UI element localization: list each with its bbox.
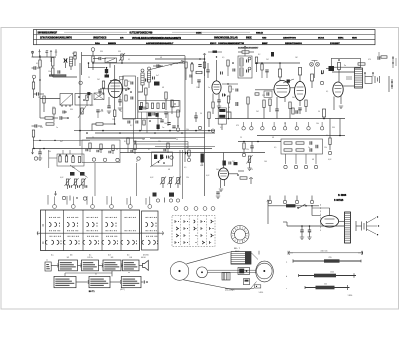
antenna terminal 3 — [46, 51, 48, 58]
switch cell label 3 — [89, 255, 92, 257]
wire extra v2 — [222, 83, 238, 84]
switch section number 1 — [53, 205, 57, 209]
node lb2 — [33, 148, 45, 150]
resistor R66 — [78, 106, 86, 118]
svg-text:0,02: 0,02 — [328, 159, 331, 161]
svg-text:68: 68 — [162, 87, 164, 89]
header r3 text f — [262, 43, 268, 45]
svg-text:8,2: 8,2 — [124, 141, 126, 143]
dashed table divider 1 — [180, 216, 182, 247]
right terminals — [381, 56, 396, 68]
svg-text:xx: xx — [46, 260, 48, 262]
wire v6 more — [237, 171, 244, 176]
dial bottom wire — [225, 288, 254, 290]
svg-text:KNCC: KNCC — [210, 43, 217, 45]
svg-text:1IR: 1IR — [120, 38, 124, 40]
block row1 label 4 — [129, 257, 132, 259]
dashed contacts col 3 — [194, 220, 197, 243]
wire mid bus 1 — [74, 130, 215, 132]
svg-text:470: 470 — [52, 107, 55, 109]
switch section stub 2 — [72, 197, 74, 205]
svg-text:8,2: 8,2 — [258, 54, 260, 56]
tube V2 pins — [213, 93, 219, 102]
wire mid bus 2 — [95, 132, 215, 134]
svg-text:1n: 1n — [208, 87, 210, 89]
wire v3 in — [255, 89, 274, 91]
block row1 link 4 — [121, 264, 123, 268]
resistor R21 — [208, 112, 210, 131]
wire ot sec — [343, 77, 355, 86]
band unit 3 — [109, 145, 114, 154]
block row2 label 2 — [95, 274, 97, 276]
svg-text:8,2: 8,2 — [45, 52, 47, 54]
panel res 4 — [157, 103, 159, 109]
svg-text:0,1: 0,1 — [36, 63, 38, 65]
switch left rail marks — [42, 224, 44, 244]
svg-text:220: 220 — [40, 127, 43, 129]
resistor R11 — [102, 81, 104, 95]
capacitor C3 — [32, 66, 41, 69]
header r2 text a — [40, 37, 72, 40]
resistor R39 — [242, 143, 245, 157]
dial mid pulley — [197, 267, 208, 278]
dashed table number 3 — [194, 207, 198, 211]
block row1 box 2 — [82, 260, 99, 271]
dropper 2 — [236, 102, 238, 106]
padder parts — [154, 155, 168, 164]
switch section stub 1 — [54, 197, 56, 205]
resistor R29 — [305, 100, 307, 112]
wire tone drops — [286, 154, 317, 164]
rod 2 — [286, 272, 356, 278]
capacitor C42 — [232, 62, 235, 71]
switch section number 2 — [71, 205, 75, 209]
label 750 — [175, 63, 179, 65]
node a1 — [39, 79, 41, 81]
ground g2 — [118, 108, 122, 110]
svg-text:S8V805SSU8WGF: S8V805SSU8WGF — [38, 33, 58, 35]
dial pointer stub — [251, 251, 259, 260]
svg-text:c: c — [286, 288, 287, 290]
resistor R12 — [114, 110, 116, 125]
panel box — [172, 101, 180, 107]
resistor R9 — [74, 52, 76, 66]
block row2 label 3 — [128, 272, 130, 274]
switch cell label 6 — [143, 255, 149, 257]
wire lv d1 — [179, 150, 181, 185]
dial lamp 2 — [316, 62, 320, 66]
svg-text:15k: 15k — [196, 87, 199, 89]
header r3 text g — [285, 42, 303, 45]
svg-text:50: 50 — [120, 111, 122, 113]
resistor R62 — [227, 60, 229, 76]
header r1 text a — [38, 33, 58, 35]
block input box — [45, 262, 51, 271]
wire ift1 links — [138, 82, 149, 92]
band unit 4 — [131, 144, 140, 160]
capacitor C20 — [296, 110, 298, 113]
dashed table number 1 — [174, 207, 178, 211]
switch cell label 4 — [108, 255, 111, 257]
header r2 text f — [246, 38, 252, 40]
capacitor C9 — [98, 90, 101, 96]
svg-text:15k: 15k — [48, 71, 51, 73]
IFT1 box — [123, 76, 136, 119]
header r2 text b — [93, 37, 107, 40]
wire v5 down — [0, 0, 1, 1]
switch contacts cell 1 — [45, 217, 61, 245]
svg-text:2x: 2x — [344, 65, 346, 67]
svg-text:68: 68 — [312, 159, 314, 161]
dark cluster 2 — [148, 113, 155, 117]
bus 118 — [123, 118, 162, 120]
padder diagonal — [150, 158, 164, 168]
svg-text:1040: 1040 — [330, 272, 334, 274]
block row2 box 2 — [89, 276, 110, 287]
ps wires mid — [312, 215, 321, 217]
tube V6 pins — [219, 174, 238, 192]
trim circ row L — [54, 191, 86, 201]
svg-text:0,02: 0,02 — [150, 177, 153, 179]
dashed table divider 2 — [188, 216, 190, 247]
capacitor C46 — [63, 111, 67, 114]
resistor R61 — [203, 62, 205, 76]
wire bus 63 — [93, 63, 185, 70]
dial bottom text — [225, 289, 234, 291]
svg-text:390: 390 — [332, 127, 335, 129]
trimmer L1 — [65, 178, 72, 189]
V2 screen parts — [223, 94, 226, 97]
svg-text:CGW1HAXMMXSEWT7W: CGW1HAXMMXSEWT7W — [218, 42, 245, 45]
header r2 text i — [318, 37, 325, 40]
switch grid frame — [41, 210, 140, 251]
capacitor C15 — [206, 63, 209, 78]
header r3 text c — [146, 42, 174, 45]
svg-text:I86WK9: I86WK9 — [108, 43, 117, 45]
unit right 1 — [186, 150, 191, 162]
block row2 link 2 — [110, 280, 121, 284]
block row1 link 3 — [99, 264, 104, 268]
wire ant down — [50, 50, 52, 62]
capacitor C6 — [32, 124, 43, 127]
wire long vertical A — [184, 56, 186, 162]
switch grid box 2 — [142, 211, 159, 250]
test row stubs — [244, 122, 323, 127]
switch section number 4 — [110, 205, 114, 209]
wire y146 — [155, 146, 215, 148]
dashed table number 5 — [211, 207, 215, 211]
capacitor C12 — [160, 120, 170, 124]
osc box — [218, 108, 226, 124]
resistor R40 — [0, 0, 1, 1]
IFT1 cluster a — [154, 82, 160, 86]
svg-text:B8 - 7: B8 - 7 — [234, 248, 241, 250]
wire v3 v4 link — [290, 87, 295, 89]
tube V1 axis wire — [100, 65, 130, 110]
capacitor C14 — [198, 65, 201, 67]
resistor R64 — [229, 86, 231, 100]
speaker coil — [364, 72, 374, 83]
filter bus — [287, 225, 344, 227]
wire mid bus 3 — [86, 137, 205, 139]
resistor R7 — [46, 123, 54, 125]
dark comp t1 — [271, 52, 274, 57]
tube V3 — [274, 81, 290, 98]
header r2 text j — [338, 38, 344, 40]
circ v2a — [198, 126, 214, 132]
header r2 text k — [352, 38, 357, 40]
tube V6 — [219, 168, 229, 180]
trim diag — [70, 165, 88, 178]
cluster out grid — [326, 66, 334, 71]
tube V4 grid bars — [297, 87, 304, 94]
svg-text:390: 390 — [72, 167, 75, 169]
header r2 text c — [120, 38, 124, 40]
resistor R31 — [338, 59, 341, 82]
dashed contacts col 1 — [175, 220, 179, 244]
dial lamp text — [344, 65, 346, 67]
svg-text:15k: 15k — [324, 147, 327, 149]
dark blob trim a — [70, 172, 85, 176]
svg-text:68: 68 — [160, 57, 162, 59]
svg-text:0,5: 0,5 — [128, 81, 130, 83]
tube V5 — [333, 82, 343, 97]
ps vertical — [267, 200, 269, 224]
svg-text:0,02: 0,02 — [200, 165, 203, 167]
switch section number 3 — [91, 205, 95, 209]
tube V3 grid bars — [276, 86, 288, 93]
resistor R23 — [238, 51, 254, 53]
junction dots bus — [79, 130, 197, 134]
padder box — [152, 152, 173, 166]
dial cord h1 — [208, 269, 256, 271]
tube V5 grid bars — [335, 86, 342, 93]
IFT2 coils — [240, 58, 248, 76]
wire osc links — [222, 112, 231, 130]
speaker plug — [375, 76, 380, 83]
wire lb1 — [40, 80, 60, 99]
diagonal pointer — [148, 61, 185, 70]
capacitor C44 — [221, 72, 223, 75]
switch section stub 5 — [129, 197, 131, 205]
cap tone — [250, 142, 253, 153]
dark comp mid — [157, 125, 165, 130]
component tl — [322, 70, 324, 73]
block row1 label 1 — [67, 257, 70, 259]
antenna terminal 1 — [31, 51, 33, 57]
tube V2 — [212, 81, 221, 94]
block row2 link 1 — [76, 280, 89, 284]
wire agc bus — [33, 148, 213, 150]
double bus corner — [134, 119, 189, 148]
wire top bus b — [82, 55, 186, 57]
svg-text:B8 T1: B8 T1 — [89, 291, 96, 293]
block row1 link 2 — [78, 264, 82, 268]
svg-text:1VG2N9T: 1VG2N9T — [330, 43, 340, 45]
header r3 text e — [218, 42, 245, 45]
switch grid divider 4 — [120, 210, 122, 251]
svg-text:50DE: 50DE — [246, 38, 252, 40]
filter cap 1 — [300, 226, 304, 239]
block row2 box 3 — [121, 276, 141, 287]
capacitor C4 — [34, 92, 45, 95]
svg-text:NDN: NDN — [352, 38, 357, 40]
grid capacitor C8 — [105, 68, 108, 77]
svg-text:H3D: H3D — [262, 38, 267, 40]
switch cell label 1 — [51, 255, 54, 257]
resistor R28 — [289, 102, 291, 119]
resistor R32 — [358, 52, 380, 65]
svg-text:0,02: 0,02 — [60, 177, 63, 179]
dashed table divider 4 — [205, 216, 207, 247]
rod 1 — [286, 257, 361, 263]
pin node 7 — [283, 196, 286, 204]
left band wire — [33, 140, 90, 141]
resistor R68 — [127, 138, 129, 153]
trimmer L3 — [80, 178, 87, 189]
block speaker — [139, 260, 148, 270]
svg-text:2k2: 2k2 — [97, 79, 100, 81]
resistor R27 — [269, 99, 271, 112]
circ agc — [31, 149, 37, 161]
resistor R63 — [261, 62, 263, 78]
resistor R24 — [278, 62, 281, 80]
block diagram id — [89, 291, 96, 293]
IFT1 inner parts — [125, 80, 133, 101]
svg-text:5k6: 5k6 — [292, 97, 295, 99]
antenna terminal 4 — [55, 50, 57, 57]
svg-text:AGFN8X1WDBEGSIA5XL7: AGFN8X1WDBEGSIA5XL7 — [146, 42, 174, 45]
wire m drop b — [339, 119, 341, 137]
resistor R10 — [92, 56, 94, 64]
capacitor C10 — [118, 96, 121, 106]
test point circle L — [32, 75, 35, 78]
svg-text:5ER1: 5ER1 — [338, 38, 344, 40]
pin node 6 — [268, 196, 271, 204]
header r2 text h — [283, 37, 296, 40]
resistor R14 — [145, 88, 147, 104]
power transformer — [345, 212, 351, 243]
wire lamp drop — [312, 61, 318, 79]
svg-text:0,02: 0,02 — [172, 107, 175, 109]
wire lower bus — [120, 152, 265, 154]
dashed contacts col 4 — [201, 220, 205, 244]
block under text — [120, 289, 125, 291]
wire det bus — [256, 62, 300, 64]
pin node 8 — [295, 196, 298, 204]
dimension line — [288, 250, 363, 255]
switch section stub 3 — [92, 197, 94, 205]
switch unit box b — [75, 94, 92, 106]
header r2 text g — [262, 38, 267, 40]
dial carriage — [238, 268, 250, 275]
svg-text:8,2: 8,2 — [130, 125, 132, 127]
svg-text:100: 100 — [264, 161, 267, 163]
svg-text:E8NF: E8NF — [262, 43, 268, 45]
circ out — [320, 73, 323, 85]
test row circles — [242, 127, 324, 130]
dial cord h2 — [208, 271, 256, 273]
band circ row a — [92, 158, 119, 162]
svg-text:390: 390 — [70, 109, 73, 111]
svg-text:25: 25 — [240, 137, 242, 139]
switch unit box c — [94, 93, 104, 100]
resistor R60 — [185, 62, 187, 80]
header table frame — [34, 30, 376, 45]
block row1 link 1 — [51, 264, 58, 268]
dark blob trim b — [153, 193, 175, 197]
header note text — [238, 46, 259, 49]
svg-text:S 407AB: S 407AB — [334, 199, 344, 202]
resistor R19 — [196, 71, 202, 73]
panel res 2 — [146, 103, 148, 109]
tone box — [281, 139, 323, 154]
double bus a — [134, 141, 189, 143]
svg-text:ABS6TF2VG: ABS6TF2VG — [283, 37, 296, 40]
tube V2 grid bars — [214, 85, 220, 90]
rectifier V7 — [312, 208, 339, 227]
tube V6 grid bars — [220, 171, 227, 176]
header r2 text d — [132, 37, 181, 40]
trimmer M3 — [175, 177, 181, 189]
resistor R2 — [52, 68, 54, 77]
wire ant link — [33, 56, 57, 58]
wire top bus a — [81, 52, 83, 75]
wire bus 59 — [155, 58, 204, 60]
header r3 text b — [108, 43, 117, 45]
svg-text:390: 390 — [118, 51, 121, 53]
det box — [264, 91, 272, 97]
resistor R45 — [328, 138, 331, 155]
header r3 text h — [330, 43, 340, 45]
switch contacts cell 4 — [102, 217, 118, 245]
svg-text:0,5: 0,5 — [222, 57, 224, 59]
dial scale label — [234, 248, 241, 250]
switch contacts cell 6 — [142, 217, 158, 245]
ps bus — [268, 205, 319, 207]
wire long vertical C — [79, 63, 81, 146]
component m5 — [292, 108, 294, 114]
header r1 text c — [196, 33, 202, 35]
resistor R18 — [191, 62, 193, 84]
switch section number 5 — [128, 205, 132, 209]
ps id text — [334, 199, 344, 202]
tube V1 grid bars — [110, 81, 120, 92]
header r3 text d — [210, 43, 217, 45]
svg-text:0,02: 0,02 — [206, 175, 209, 177]
svg-text:390: 390 — [100, 51, 103, 53]
output transformer — [355, 68, 363, 88]
header r2 text e — [214, 37, 238, 40]
dashed contacts col 2 — [184, 220, 188, 244]
resistor R47 — [286, 204, 296, 207]
capacitor C11 — [164, 112, 167, 118]
svg-text:4n7: 4n7 — [72, 53, 75, 55]
socket pins — [231, 226, 249, 244]
svg-text:49-56: 49-56 — [143, 255, 149, 257]
dots 59 — [199, 58, 205, 60]
trimmer L2 — [73, 178, 80, 189]
block speaker label — [141, 257, 146, 259]
band unit 5 — [164, 143, 173, 159]
test point circle 1 — [79, 81, 82, 84]
resistor R22 — [255, 57, 257, 72]
svg-text:15k: 15k — [246, 149, 249, 151]
resistor R17 — [177, 110, 179, 127]
res cluster4 wire — [49, 150, 70, 168]
dial bottom text 2 — [259, 292, 264, 294]
block row1 label 2 — [87, 257, 92, 259]
